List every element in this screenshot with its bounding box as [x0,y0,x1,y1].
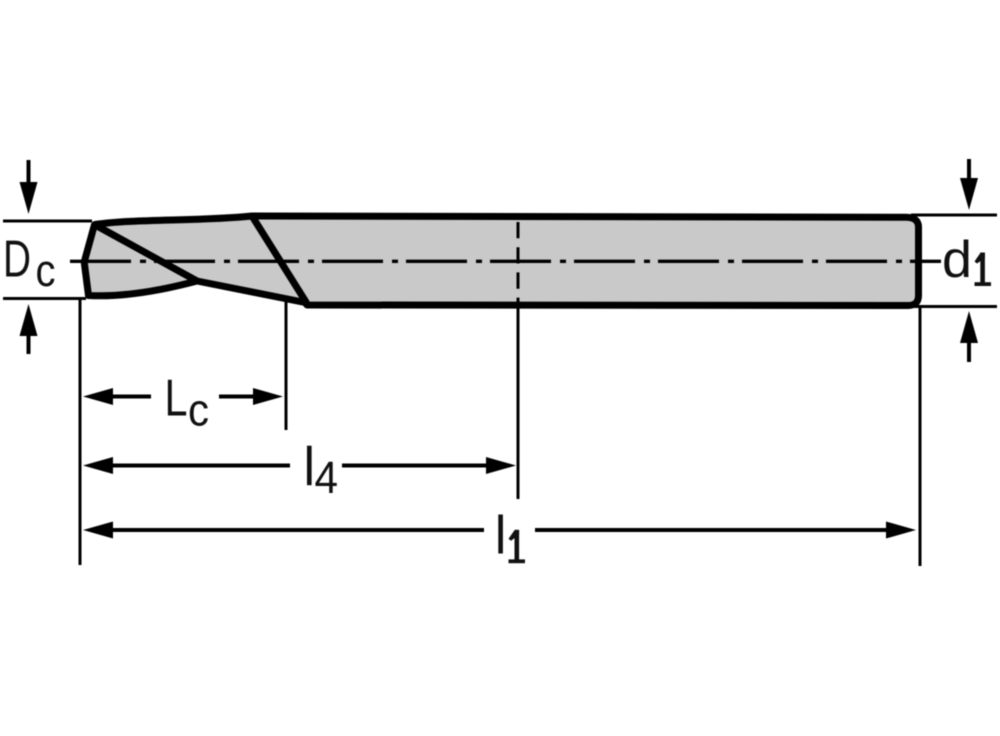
svg-text:c: c [36,245,56,296]
svg-text:4: 4 [315,452,339,503]
svg-text:D: D [3,231,31,289]
svg-text:d: d [942,231,972,289]
svg-text:L: L [165,370,188,428]
svg-text:c: c [188,385,209,436]
